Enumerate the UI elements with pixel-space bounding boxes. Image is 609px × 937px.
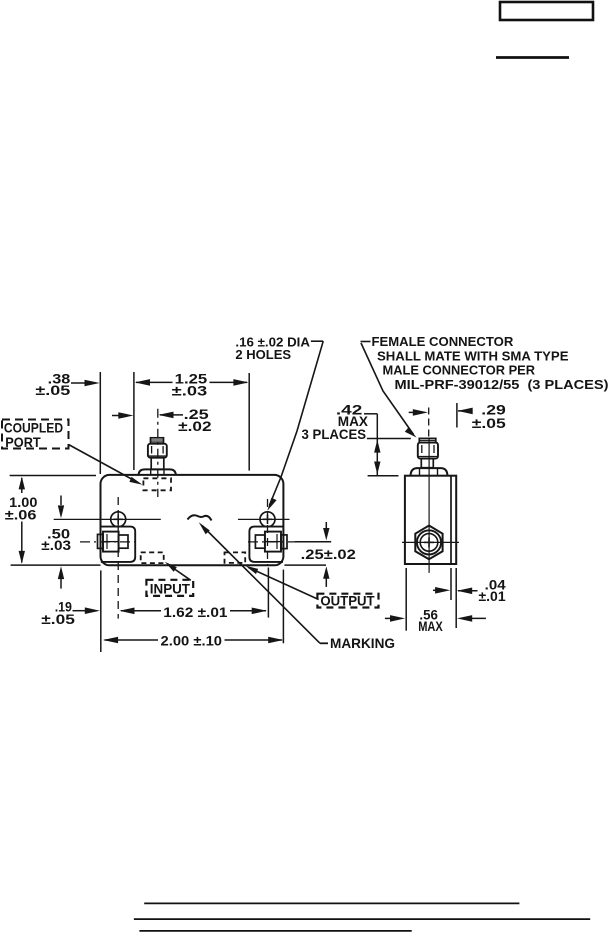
front body rounded rect: [101, 475, 284, 565]
top marking pad dashed: [143, 478, 171, 490]
svg-text:±.02: ±.02: [178, 419, 212, 434]
dimension .25 +-.02 (connector offset): [178, 407, 212, 434]
left mounting hole: [111, 512, 126, 527]
right connector centerline: [248, 541, 295, 543]
marking leader arrowhead: [199, 522, 210, 534]
label OUTPUT dashed box: [317, 594, 378, 608]
centerline of top connector: [157, 409, 159, 497]
face hex inner circle: [420, 534, 438, 552]
right mounting hole: [260, 512, 275, 527]
right side connector: [255, 535, 265, 548]
side top flange: [411, 468, 448, 475]
dimension 1.25 +-.03: [172, 372, 208, 399]
bottom extension right of body: [284, 564, 326, 566]
note: female connector (4 lines): [372, 334, 609, 392]
left extension lines: [10, 475, 96, 477]
bottom marking pad right dashed: [225, 552, 246, 563]
arrowhead of female-connector leader: [405, 427, 417, 437]
front top connector cap: [151, 438, 164, 444]
leader OUTPUT to right pad: [249, 568, 319, 600]
svg-text:1.62 ±.01: 1.62 ±.01: [163, 605, 228, 620]
svg-text:±.06: ±.06: [5, 508, 37, 523]
extension right hole below: [267, 568, 269, 618]
connector centerline extension right: [295, 541, 331, 543]
svg-text:MIL-PRF-39012/55 (3 PLACES): MIL-PRF-39012/55 (3 PLACES): [395, 377, 609, 392]
label INPUT dashed box: [146, 580, 193, 596]
bottom rules: [144, 902, 519, 904]
svg-text:±.05: ±.05: [35, 383, 70, 398]
svg-text:INPUT: INPUT: [150, 582, 191, 597]
left boss pad: [101, 527, 135, 562]
svg-text:MARKING: MARKING: [330, 636, 395, 651]
svg-text:3 PLACES: 3 PLACES: [302, 427, 367, 442]
side body: [405, 476, 456, 564]
side connector neck: [421, 459, 433, 468]
extension line body left edge extended up: [99, 372, 101, 474]
bottom marking pad left dashed: [141, 552, 164, 563]
dimension .42 MAX 3 PLACES: [302, 403, 369, 443]
dimension .50 +-.03: [41, 527, 71, 554]
leader coupled port to top marking pad: [69, 445, 138, 483]
svg-text:2.00 ±.10: 2.00 ±.10: [161, 634, 223, 649]
svg-text:OUTPUT: OUTPUT: [320, 594, 375, 609]
svg-text:.25±.02: .25±.02: [301, 547, 357, 562]
marking squiggle: [188, 515, 212, 520]
arrowhead coupled-port leader: [129, 477, 142, 485]
extension line left boss edge: [133, 372, 135, 470]
extension below body left: [100, 570, 102, 652]
heavy rule below title block: [496, 56, 569, 59]
marking leader line: [202, 526, 320, 644]
face hex outer circle: [417, 530, 441, 554]
svg-text:SHALL MATE WITH SMA TYPE: SHALL MATE WITH SMA TYPE: [377, 349, 569, 364]
svg-text:2 HOLES: 2 HOLES: [235, 347, 291, 362]
svg-text:PORT: PORT: [5, 435, 41, 450]
centerline above side connector: [428, 408, 430, 438]
leader from female-connector note to side connector: [361, 342, 414, 435]
extension below body right: [282, 570, 284, 644]
side extensions below: [405, 568, 407, 631]
left connector centerline: [80, 541, 137, 543]
leader from .16 dia note to right hole: [269, 341, 323, 505]
dimension .29 +-.05: [472, 403, 507, 431]
side connector cap: [419, 438, 436, 442]
dimension .04 +-.01: [479, 578, 507, 605]
front top connector hex nut: [148, 444, 167, 458]
arrowhead of 2-holes leader: [267, 498, 276, 511]
svg-text:±.05: ±.05: [472, 416, 507, 431]
dimension .56 MAX: [418, 608, 443, 634]
side plate inner line: [450, 476, 452, 564]
side vertical centerline: [428, 438, 430, 573]
side connector hex: [418, 443, 438, 459]
note: .16 dia / 2 holes: [235, 335, 310, 363]
side horizontal centerline: [402, 541, 459, 543]
face hex center cross: [424, 541, 434, 543]
dimension .38 +-.05: [35, 372, 70, 398]
svg-text:FEMALE CONNECTOR: FEMALE CONNECTOR: [372, 334, 514, 349]
dimension 1.00 +-.06: [5, 495, 38, 523]
svg-text:MAX: MAX: [418, 619, 443, 634]
svg-text:COUPLED: COUPLED: [4, 421, 63, 436]
extension line right boss edge: [248, 373, 250, 471]
left side connector: [98, 534, 104, 548]
leader INPUT to left pad: [168, 565, 191, 581]
front top connector neck: [151, 458, 164, 470]
dimension .19 +-.05: [41, 600, 75, 627]
svg-text:±.01: ±.01: [479, 589, 507, 604]
svg-text:±.05: ±.05: [41, 612, 75, 627]
svg-text:MALE CONNECTOR PER: MALE CONNECTOR PER: [383, 363, 536, 378]
title block box top right: [500, 2, 593, 20]
svg-text:±.03: ±.03: [172, 384, 208, 399]
label COUPLED PORT dashed box: [2, 420, 69, 449]
svg-text:±.03: ±.03: [41, 538, 71, 553]
face hex nut: [415, 526, 442, 560]
right boss pad: [249, 527, 283, 562]
front top flange: [139, 469, 176, 475]
